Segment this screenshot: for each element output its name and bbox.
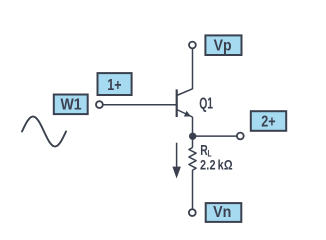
- wire base: [103, 104, 176, 106]
- svg-text:R: R: [200, 142, 207, 158]
- wire node to resistor: [192, 136, 194, 148]
- wire emitter to node: [192, 117, 194, 137]
- terminal Vn circle: [189, 209, 196, 216]
- label Vp: [205, 35, 241, 55]
- wire resistor to Vn: [192, 170, 194, 209]
- terminal 2+ circle: [237, 133, 244, 140]
- transistor Q1: [177, 89, 193, 117]
- label Q1: [199, 94, 213, 112]
- label W1: [54, 95, 88, 115]
- label 1+: [98, 73, 132, 95]
- label 2+: [251, 111, 286, 131]
- voltage source W1 sine symbol: [22, 117, 66, 147]
- svg-text:W1: W1: [60, 96, 81, 114]
- svg-text:2.2 kΩ: 2.2 kΩ: [200, 157, 233, 172]
- svg-text:1+: 1+: [107, 76, 121, 94]
- label Vn: [206, 203, 242, 222]
- wire collector: [192, 49, 194, 89]
- svg-text:Vp: Vp: [214, 37, 232, 55]
- resistor RL zigzag: [189, 148, 196, 171]
- value label 2.2 kOhm: [200, 157, 233, 172]
- node junction dot: [189, 133, 196, 140]
- wire output: [193, 135, 237, 137]
- terminal 1+ circle: [96, 101, 103, 108]
- svg-text:Vn: Vn: [213, 203, 231, 221]
- svg-text:2+: 2+: [261, 113, 275, 131]
- label RL: [200, 142, 211, 159]
- terminal Vp circle: [189, 42, 196, 49]
- svg-text:Q1: Q1: [199, 94, 213, 112]
- current direction arrow: [172, 143, 181, 179]
